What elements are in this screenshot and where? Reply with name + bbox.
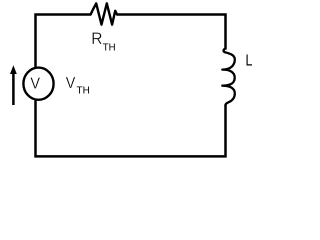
inductor L <box>222 49 235 106</box>
voltage source V (circle) <box>23 68 53 100</box>
svg-text:R: R <box>91 29 102 48</box>
svg-text:TH: TH <box>77 85 90 97</box>
wire: left vertical from source top to top-left corner, then top wire to resistor <box>36 15 91 68</box>
svg-text:TH: TH <box>103 42 116 54</box>
svg-text:L: L <box>246 52 253 69</box>
wire: right vertical below inductor, bottom wire, left vertical up to source bottom <box>36 101 226 157</box>
wire: top wire from resistor to top-right corner, then right vertical down to inductor <box>117 15 226 50</box>
svg-text:V: V <box>30 75 40 92</box>
svg-text:V: V <box>66 75 76 92</box>
source polarity arrow <box>10 65 17 105</box>
resistor R_TH <box>91 3 117 24</box>
